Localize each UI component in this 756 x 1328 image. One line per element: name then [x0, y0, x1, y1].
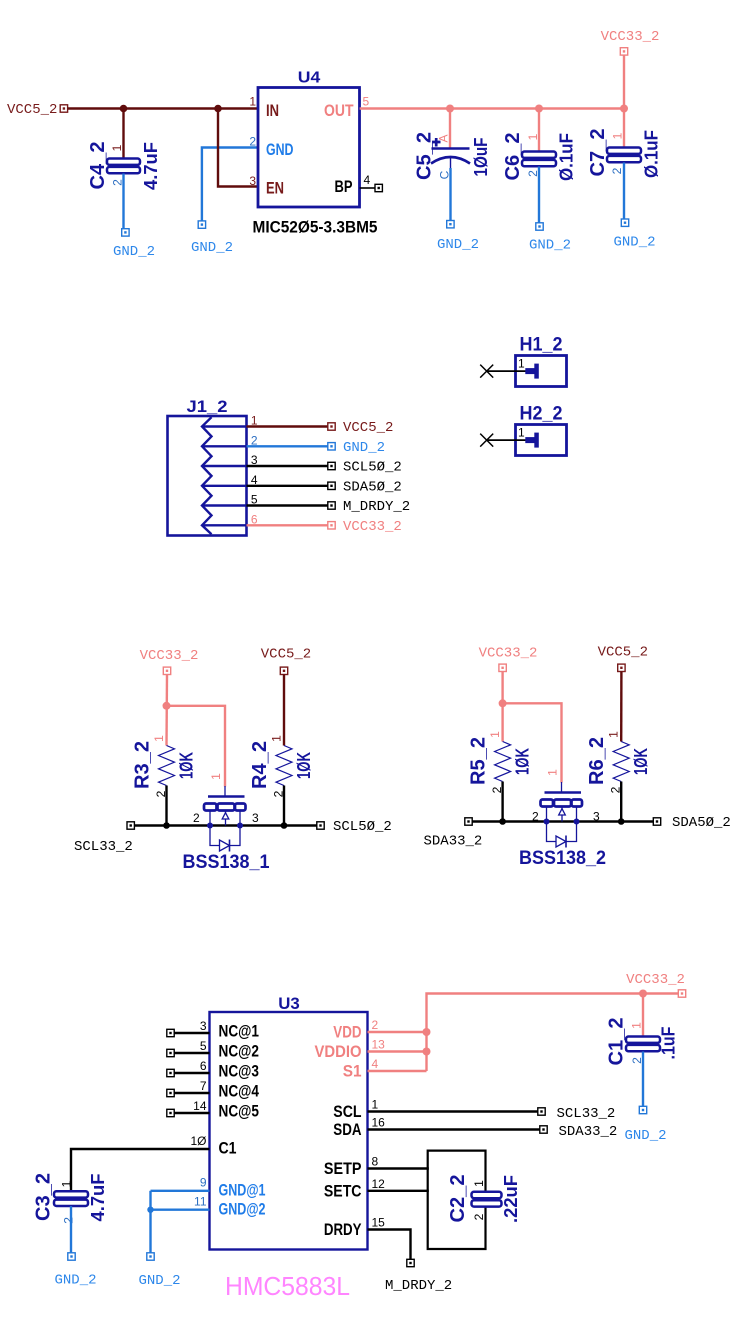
svg-text:GND_2: GND_2: [138, 1273, 180, 1289]
svg-text:8: 8: [372, 1155, 379, 1169]
svg-text:VCC5_2: VCC5_2: [261, 647, 311, 663]
svg-text:5: 5: [251, 493, 258, 507]
svg-text:1: 1: [209, 773, 223, 780]
transistor BSS138_2: [561, 782, 563, 793]
wire U3 gnd vertical: [149, 1191, 151, 1253]
wire R5_2 to bus: [501, 782, 503, 822]
wire SDA33_2 to SDA5Ø_2 horizontal: [472, 820, 655, 822]
svg-text:C1_2: C1_2: [606, 1018, 628, 1066]
ground terminal GND_2 (C3): [68, 1253, 75, 1260]
junction VCC33 branch: [163, 702, 171, 710]
svg-text:Ø.1uF: Ø.1uF: [557, 133, 577, 181]
wire R4_2 to bus: [283, 786, 285, 826]
svg-text:VCC5_2: VCC5_2: [343, 420, 393, 436]
wire C4 pin1: [122, 109, 124, 159]
svg-text:C6_2: C6_2: [502, 133, 524, 181]
svg-text:R5_2: R5_2: [468, 737, 490, 785]
svg-text:SCL: SCL: [333, 1102, 361, 1121]
svg-text:1: 1: [251, 414, 258, 428]
svg-text:H2_2: H2_2: [520, 404, 563, 425]
svg-text:SCL33_2: SCL33_2: [557, 1106, 616, 1122]
svg-text:GND_2: GND_2: [54, 1273, 96, 1289]
svg-text:4: 4: [364, 173, 371, 187]
svg-text:4.7uF: 4.7uF: [88, 1173, 108, 1221]
transistor BSS138_1: [224, 786, 226, 797]
junction VDDIO: [423, 1048, 431, 1056]
svg-text:1Ø: 1Ø: [190, 1134, 206, 1148]
H2_2 pin 1 wire: [487, 439, 534, 441]
net terminal VCC33_2: [328, 522, 335, 529]
net terminal M_DRDY_2: [328, 502, 335, 509]
junction left resistor: [499, 818, 506, 825]
svg-text:14: 14: [193, 1099, 207, 1113]
J1 inner pin lines: [202, 427, 247, 526]
svg-text:R4_2: R4_2: [249, 741, 271, 789]
net terminal SCL5Ø_2: [317, 822, 324, 829]
J1 pin 5 wire: [247, 504, 329, 506]
capacitor C3 4.7uF: [54, 1191, 88, 1206]
ground terminal GND_2 (U4 pin2): [198, 221, 205, 228]
wire EN to U4: [218, 109, 258, 187]
IC U3 body: [210, 1012, 368, 1250]
svg-text:VDD: VDD: [333, 1023, 361, 1042]
wire VCC5_2 horizontal to U4 IN: [68, 107, 258, 109]
svg-text:J1_2: J1_2: [187, 397, 228, 416]
junction U3 gnd: [147, 1207, 153, 1213]
svg-text:4: 4: [372, 1057, 379, 1071]
ground terminal GND_2 (C4): [122, 229, 129, 236]
svg-text:VCC33_2: VCC33_2: [601, 29, 660, 45]
J1 pin 2 wire: [247, 445, 329, 447]
svg-text:BSS138_1: BSS138_1: [183, 852, 270, 873]
svg-text:M_DRDY_2: M_DRDY_2: [343, 499, 410, 515]
svg-text:1ØK: 1ØK: [513, 748, 533, 775]
capacitor C4 4.7uF: [107, 159, 140, 174]
svg-text:GND_2: GND_2: [613, 235, 655, 251]
wire pin10 to C3: [71, 1149, 210, 1191]
svg-text:C5_2: C5_2: [414, 132, 436, 180]
H2_2 pad: [525, 437, 536, 443]
wire SDA to terminal: [368, 1128, 541, 1130]
svg-text:R3_2: R3_2: [132, 741, 154, 789]
wire C6 pin1: [538, 109, 540, 152]
svg-text:VCC33_2: VCC33_2: [140, 648, 199, 664]
svg-text:VCC33_2: VCC33_2: [626, 972, 685, 988]
wire VCC33 to R pullup: [501, 672, 503, 742]
wire U4 GND pin to ground: [202, 148, 258, 222]
capacitor C2 .22uF: [472, 1192, 502, 1207]
wire C1 pin1: [642, 994, 644, 1037]
connector H2_2 body: [516, 425, 567, 456]
svg-text:VCC33_2: VCC33_2: [479, 646, 538, 662]
svg-text:C1: C1: [219, 1139, 237, 1158]
svg-text:.22uF: .22uF: [501, 1175, 521, 1223]
net terminal VCC33_2 (U3): [678, 990, 685, 997]
svg-text:BP: BP: [335, 177, 353, 196]
wire R3_2 to bus: [165, 786, 167, 826]
net terminal SDA5Ø_2: [653, 818, 660, 825]
H1_2 no-connect X: [480, 365, 493, 378]
svg-text:IN: IN: [266, 101, 279, 120]
U3 pin 14 NC@5: [174, 1112, 210, 1114]
wire VDD to bus: [368, 1031, 427, 1033]
svg-text:SETP: SETP: [324, 1159, 362, 1178]
svg-text:GND_2: GND_2: [343, 440, 385, 456]
resistor R6_2 10K: [613, 742, 629, 782]
net terminal SCL5Ø_2: [328, 462, 335, 469]
svg-text:C7_2: C7_2: [587, 129, 609, 177]
junction right resistor: [281, 822, 288, 829]
svg-text:U3: U3: [278, 994, 300, 1013]
J1 pin 6 wire: [247, 524, 329, 526]
svg-text:1: 1: [546, 769, 560, 776]
svg-text:U4: U4: [298, 70, 321, 87]
svg-text:9: 9: [200, 1176, 207, 1190]
svg-text:2: 2: [532, 810, 539, 824]
wire C6 pin2 to ground: [538, 167, 540, 224]
J1 zigzag: [202, 417, 212, 534]
svg-text:13: 13: [372, 1038, 386, 1052]
U3 pin 3 NC@1: [174, 1032, 210, 1034]
svg-text:C2_2: C2_2: [447, 1175, 469, 1223]
svg-text:NC@1: NC@1: [219, 1022, 260, 1041]
svg-text:NC@5: NC@5: [219, 1102, 260, 1121]
svg-text:SCL5Ø_2: SCL5Ø_2: [343, 460, 402, 476]
svg-text:SETC: SETC: [324, 1181, 362, 1200]
svg-text:GND@2: GND@2: [219, 1200, 266, 1219]
capacitor C5 10uF polarized: [432, 147, 470, 150]
net terminal SCL33_2: [538, 1108, 545, 1115]
net terminal SCL33_2: [127, 822, 134, 829]
junction C7/VCC33 riser: [620, 105, 628, 113]
net terminal VCC5_2: [328, 423, 335, 430]
svg-text:2: 2: [251, 433, 258, 447]
svg-text:2: 2: [249, 135, 256, 149]
wire SCL to terminal: [368, 1110, 539, 1112]
net label VCC33_2 (top): [620, 48, 627, 55]
svg-text:1: 1: [270, 735, 284, 742]
svg-text:MIC52Ø5-3.3BM5: MIC52Ø5-3.3BM5: [253, 218, 378, 237]
resistor R5_2 10K: [495, 742, 511, 782]
svg-text:2: 2: [372, 1018, 379, 1032]
ground terminal GND_2 (C7): [621, 219, 628, 226]
svg-text:C4_2: C4_2: [87, 142, 109, 190]
svg-text:1ØK: 1ØK: [177, 752, 197, 779]
wire VCC33 branch to gate: [167, 706, 226, 787]
svg-text:.1uF: .1uF: [659, 1027, 679, 1060]
wire VCC5 to R pullup: [283, 675, 285, 746]
svg-text:1: 1: [607, 731, 621, 738]
svg-text:1: 1: [518, 426, 525, 440]
capacitor C6 0.1uF: [522, 152, 556, 167]
svg-text:GND_2: GND_2: [624, 1128, 666, 1144]
svg-text:DRDY: DRDY: [324, 1220, 362, 1239]
wire VDDIO to bus: [368, 1050, 427, 1052]
junction at C4 tap: [120, 105, 128, 113]
junction at EN tap: [214, 105, 222, 113]
wire VCC33 bus: [427, 994, 683, 1072]
svg-text:SDA5Ø_2: SDA5Ø_2: [672, 815, 731, 831]
H1_2 pad: [525, 368, 536, 374]
svg-text:4: 4: [251, 473, 258, 487]
svg-text:4.7uF: 4.7uF: [141, 142, 161, 190]
net terminal GND_2: [328, 443, 335, 450]
net terminal SDA33_2: [465, 818, 472, 825]
junction left resistor: [163, 822, 170, 829]
svg-text:5: 5: [200, 1039, 207, 1053]
svg-text:SCL33_2: SCL33_2: [74, 839, 133, 855]
U3 pin 7 NC@4: [174, 1092, 210, 1094]
svg-text:1ØuF: 1ØuF: [471, 138, 491, 177]
svg-text:BSS138_2: BSS138_2: [519, 848, 606, 869]
wire C5 pin C to ground: [449, 168, 451, 221]
J1 pin 1 wire: [247, 425, 329, 427]
net terminal SDA5Ø_2: [328, 482, 335, 489]
svg-text:SDA33_2: SDA33_2: [424, 834, 483, 850]
svg-text:6: 6: [251, 512, 258, 526]
net terminal M_DRDY_2: [407, 1259, 414, 1266]
svg-text:3: 3: [251, 453, 258, 467]
svg-text:3: 3: [593, 810, 600, 824]
svg-text:SCL5Ø_2: SCL5Ø_2: [333, 819, 392, 835]
svg-text:Ø.1uF: Ø.1uF: [642, 130, 662, 178]
svg-text:1: 1: [630, 1022, 644, 1029]
svg-text:1: 1: [488, 731, 502, 738]
svg-text:1: 1: [526, 133, 540, 140]
wire C7 pin1: [623, 109, 625, 148]
svg-text:5: 5: [363, 95, 370, 109]
wire riser to VCC33_2: [623, 55, 625, 109]
svg-text:VCC33_2: VCC33_2: [343, 519, 402, 535]
svg-text:A: A: [437, 134, 451, 142]
svg-text:NC@3: NC@3: [219, 1062, 260, 1081]
connector H1_2 body: [516, 356, 567, 387]
svg-text:SDA: SDA: [333, 1120, 361, 1139]
svg-text:1: 1: [60, 1180, 74, 1187]
svg-text:NC@4: NC@4: [219, 1082, 260, 1101]
U3 pin 6 NC@3: [174, 1072, 210, 1074]
capacitor C7 0.1uF: [607, 148, 641, 163]
wire R6_2 to bus: [620, 782, 622, 822]
svg-text:M_DRDY_2: M_DRDY_2: [385, 1278, 452, 1294]
wire DRDY to terminal: [368, 1230, 411, 1260]
svg-text:1ØK: 1ØK: [294, 752, 314, 779]
svg-text:SDA33_2: SDA33_2: [559, 1124, 618, 1140]
svg-text:SDA5Ø_2: SDA5Ø_2: [343, 479, 402, 495]
svg-text:2: 2: [62, 1217, 76, 1224]
connector J1_2 body: [168, 416, 247, 536]
svg-text:H1_2: H1_2: [520, 335, 563, 356]
svg-text:11: 11: [194, 1195, 207, 1209]
junction VCC33 branch: [499, 699, 507, 707]
svg-text:1: 1: [472, 1180, 486, 1187]
junction VDD: [423, 1028, 431, 1036]
wire S1 to bus: [368, 1070, 427, 1072]
wire C7 pin2 to ground: [623, 163, 625, 220]
svg-text:1: 1: [110, 144, 124, 151]
wire SETC: [368, 1190, 429, 1192]
svg-text:1: 1: [611, 132, 625, 139]
svg-text:12: 12: [372, 1177, 386, 1191]
wire OUT net: [360, 107, 624, 109]
resistor R4_2 10K: [276, 746, 292, 786]
svg-text:VDDIO: VDDIO: [315, 1042, 362, 1061]
svg-text:VCC5_2: VCC5_2: [598, 644, 648, 660]
junction right resistor: [618, 818, 625, 825]
junction C1 tap: [639, 990, 647, 998]
op-amp U4 regulator body: [258, 88, 360, 208]
svg-text:2: 2: [193, 811, 200, 825]
J1 pin 4 wire: [247, 485, 329, 487]
wire C5 pin A: [449, 109, 451, 148]
svg-text:NC@2: NC@2: [219, 1042, 260, 1061]
J1 pin 3 wire: [247, 465, 329, 467]
U3 pin 5 NC@2: [174, 1052, 210, 1054]
wire VCC33 to R pullup: [165, 675, 168, 746]
svg-text:3: 3: [252, 811, 259, 825]
resistor R3_2 10K: [159, 746, 175, 786]
junction C6: [535, 105, 543, 113]
wire SETP: [368, 1167, 429, 1169]
svg-text:OUT: OUT: [324, 101, 354, 120]
svg-text:VCC5_2: VCC5_2: [7, 102, 57, 118]
net terminal SDA33_2: [540, 1126, 547, 1133]
svg-text:GND: GND: [266, 140, 294, 159]
svg-text:3: 3: [249, 174, 256, 188]
svg-text:R6_2: R6_2: [586, 737, 608, 785]
ground terminal GND_2 (U3): [147, 1253, 154, 1260]
wire C4 pin2 to ground: [122, 174, 124, 230]
svg-text:15: 15: [372, 1216, 386, 1230]
svg-text:GND_2: GND_2: [529, 238, 571, 254]
svg-text:EN: EN: [266, 179, 284, 198]
svg-text:GND_2: GND_2: [437, 237, 479, 253]
svg-text:HMC5883L: HMC5883L: [225, 1271, 350, 1301]
svg-text:2: 2: [472, 1213, 486, 1220]
svg-text:1: 1: [152, 735, 166, 742]
U4 BP stub and terminal: [360, 187, 375, 189]
svg-text:3: 3: [200, 1019, 207, 1033]
capacitor C1 .1uF: [626, 1037, 660, 1052]
svg-text:GND@1: GND@1: [219, 1181, 266, 1200]
wire VCC33 branch to gate: [503, 703, 562, 782]
svg-text:1: 1: [518, 357, 525, 371]
wire C2 loop: [428, 1151, 486, 1249]
ground terminal GND_2 (C6): [536, 223, 543, 230]
svg-text:GND_2: GND_2: [191, 240, 233, 256]
wire VCC5 to R pullup: [620, 672, 623, 742]
ground terminal GND_2 (C5): [447, 221, 454, 228]
svg-text:S1: S1: [343, 1062, 362, 1081]
svg-text:7: 7: [200, 1079, 207, 1093]
svg-text:C3_2: C3_2: [33, 1173, 55, 1221]
svg-text:GND_2: GND_2: [113, 244, 155, 260]
svg-text:1ØK: 1ØK: [631, 748, 651, 775]
svg-text:1: 1: [249, 95, 256, 109]
svg-text:6: 6: [200, 1059, 207, 1073]
wire SCL33_2 to SCL5Ø_2 horizontal: [134, 824, 318, 826]
H1_2 pin 1 wire: [487, 370, 534, 372]
ground terminal GND_2 (C1): [639, 1106, 646, 1113]
wire C1 pin2 to ground: [642, 1052, 644, 1107]
H2_2 no-connect X: [480, 434, 493, 447]
svg-text:16: 16: [372, 1116, 386, 1130]
wire C3 pin2 to ground: [70, 1206, 72, 1253]
svg-text:2: 2: [610, 167, 624, 174]
junction C5: [446, 105, 454, 113]
svg-text:1: 1: [372, 1098, 379, 1112]
